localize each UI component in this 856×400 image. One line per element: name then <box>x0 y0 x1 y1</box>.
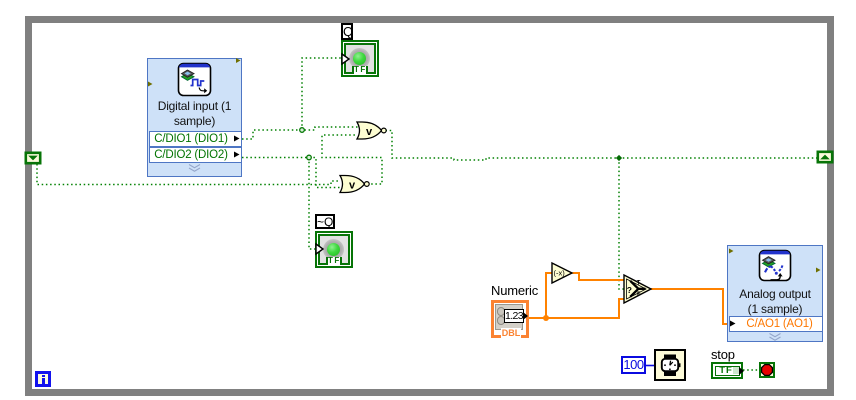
svg-text:(-x): (-x) <box>554 269 566 278</box>
svg-text:?: ? <box>627 285 632 295</box>
svg-text:v: v <box>349 179 356 191</box>
svg-text:v: v <box>366 126 373 138</box>
svg-text:F: F <box>637 292 641 298</box>
svg-text:T: T <box>637 281 641 287</box>
